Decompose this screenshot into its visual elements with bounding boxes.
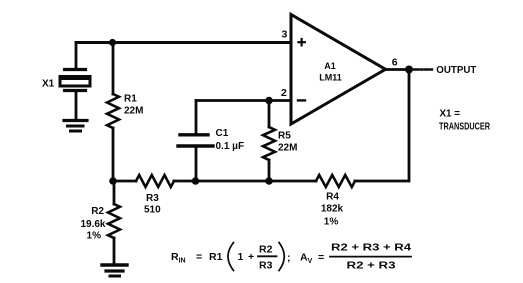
resistor R3 [136,175,174,187]
wire C1 bottom lead [195,148,198,182]
svg-text:510: 510 [144,205,161,216]
svg-text:R2 + R3 + R4: R2 + R3 + R4 [331,242,411,254]
svg-text:R5: R5 [278,131,291,142]
minus input symbol [298,99,305,101]
svg-text:R2 + R3: R2 + R3 [347,260,396,272]
resistor R4 [316,175,355,187]
svg-text:22M: 22M [124,106,143,117]
svg-text:22M: 22M [278,143,297,154]
pin 3 label [282,29,288,41]
svg-text:A1: A1 [324,61,336,71]
svg-text:1%: 1% [324,217,339,228]
label OUTPUT [436,65,477,76]
svg-text:OUTPUT: OUTPUT [436,65,477,76]
label X1 [42,79,55,90]
svg-text:AV: AV [300,252,313,266]
wire pin 2 feedback rail [196,99,291,102]
svg-text:1%: 1% [87,231,102,242]
svg-text:RIN: RIN [171,251,186,265]
resistor R1 [107,94,119,128]
svg-text:R3: R3 [146,193,159,204]
formula right parenthesis [279,243,284,271]
label R5 22M [278,131,297,154]
wire R5 bottom lead [268,160,271,181]
label C1 0.1 uF [216,128,245,152]
svg-text:R4: R4 [326,192,339,203]
label R3 510 [144,193,161,216]
svg-text:6: 6 [392,57,398,69]
label R1 22M [124,94,143,117]
svg-text:R1: R1 [124,94,137,105]
wire R1 top lead [112,43,115,95]
wire top rail (X1/R1 to pin 3) [76,41,291,44]
transducer X1 [60,70,90,120]
label R4 182k 1% [321,192,344,228]
svg-text:2: 2 [281,87,287,99]
label A1 LM11 [319,61,342,83]
wire R2 bottom lead [113,238,116,263]
wire bottom rail right + feedback riser [355,70,409,182]
svg-text:3: 3 [282,29,288,41]
svg-text:19.6k: 19.6k [80,219,105,230]
svg-text:X1 =: X1 = [440,108,461,119]
wire output lead [386,68,410,71]
svg-text:+: + [248,251,254,263]
formula Rin fraction bar [258,255,277,257]
label R2 19.6k 1% [80,206,105,242]
op-amp A1 LM11 [291,15,386,125]
wire R1 bottom lead [112,128,115,181]
ground (under R2) [102,265,127,276]
wire R5 top lead [268,101,271,128]
plus input symbol [298,39,304,45]
svg-text:182k: 182k [321,204,344,215]
svg-text:R3: R3 [259,260,273,272]
node F (output junction) [405,66,413,74]
svg-text:1: 1 [238,251,244,263]
formula Av fraction bar [330,256,411,258]
wire C1 top lead [195,101,198,134]
node D (R5 bottom junction) [265,177,273,185]
capacitor C1 [178,135,213,146]
wire X1 branch [75,43,78,69]
svg-text:=: = [196,251,202,263]
svg-text:LM11: LM11 [319,73,342,83]
svg-text:R1: R1 [209,251,223,263]
svg-text:TRANSDUCER: TRANSDUCER [439,121,490,132]
label X1 = TRANSDUCER [439,108,490,132]
pin 6 label [392,57,398,69]
svg-text:X1: X1 [42,79,55,90]
wire output dashed stub [414,68,432,70]
pin 2 label [281,87,287,99]
node B (R1/R2/R3 junction) [109,177,117,185]
formula left parenthesis [228,243,234,271]
formula Av [300,242,411,272]
svg-text:C1: C1 [216,128,229,139]
svg-text:R2: R2 [259,244,273,256]
wire R2 top lead [113,181,116,204]
formula Rin [171,244,291,272]
wire bottom rail middle [174,180,316,183]
node A (top rail / R1 junction) [109,39,116,46]
node C (C1 bottom junction) [192,177,200,185]
wire bottom rail left [113,180,136,183]
resistor R2 [108,204,120,238]
node E (R5 top / pin 2 junction) [265,97,273,105]
svg-text:=: = [318,252,324,264]
ground (under X1) [64,121,87,132]
svg-text:0.1 µF: 0.1 µF [216,141,245,152]
svg-text:R2: R2 [91,206,104,217]
resistor R5 [263,127,275,160]
svg-text:;: ; [287,252,291,264]
